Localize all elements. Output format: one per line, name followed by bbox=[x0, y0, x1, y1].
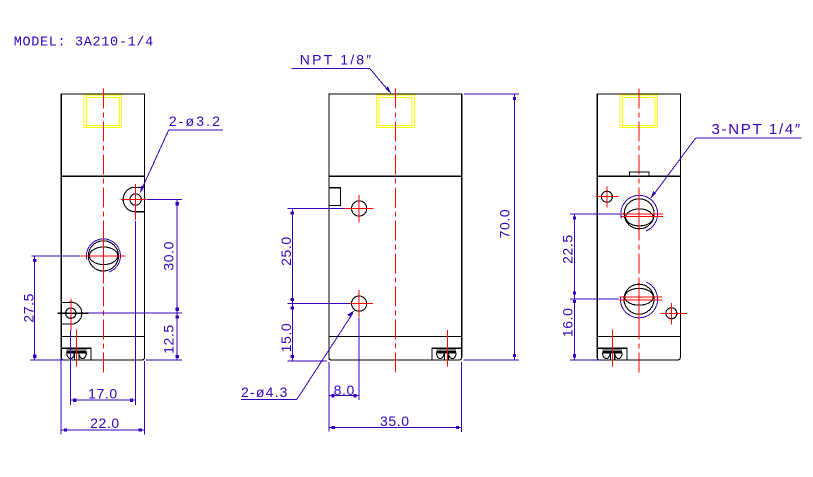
svg-text:27.5: 27.5 bbox=[20, 293, 36, 323]
svg-text:70.0: 70.0 bbox=[496, 209, 512, 239]
svg-text:17.0: 17.0 bbox=[88, 385, 118, 401]
svg-text:22.0: 22.0 bbox=[90, 415, 120, 431]
svg-text:8.0: 8.0 bbox=[334, 382, 355, 398]
svg-text:3-NPT 1/4″: 3-NPT 1/4″ bbox=[712, 121, 802, 138]
svg-text:16.0: 16.0 bbox=[560, 307, 576, 337]
svg-text:30.0: 30.0 bbox=[160, 241, 176, 271]
svg-text:NPT 1/8″: NPT 1/8″ bbox=[300, 51, 374, 67]
svg-text:35.0: 35.0 bbox=[380, 413, 410, 429]
svg-text:MODEL: 3A210-1/4: MODEL: 3A210-1/4 bbox=[14, 36, 154, 51]
svg-text:15.0: 15.0 bbox=[278, 323, 294, 353]
svg-text:22.5: 22.5 bbox=[560, 234, 576, 264]
svg-text:12.5: 12.5 bbox=[160, 324, 176, 354]
svg-text:25.0: 25.0 bbox=[278, 236, 294, 266]
svg-text:2-ø3.2: 2-ø3.2 bbox=[169, 113, 222, 129]
svg-text:2-ø4.3: 2-ø4.3 bbox=[241, 384, 289, 400]
